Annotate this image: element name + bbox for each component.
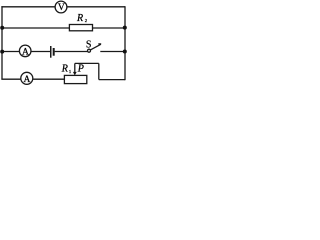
switch S blade tip tail <box>98 43 101 45</box>
svg-text:R: R <box>61 63 68 74</box>
switch S pivot circle <box>88 49 91 52</box>
wire switch to right edge <box>100 51 125 53</box>
wire R2 branch right <box>92 27 125 29</box>
svg-text:S: S <box>86 39 92 50</box>
wire bottom row: left corner to ammeter A2 <box>1 78 20 80</box>
wire slider branch bottom to right edge <box>99 79 125 81</box>
wire A1 to battery <box>31 51 50 53</box>
svg-text:V: V <box>58 3 65 13</box>
rheostat slider wire <box>75 62 99 64</box>
svg-text:A: A <box>23 75 30 85</box>
battery B1 short thick plate <box>53 48 55 56</box>
wire R2 branch left <box>2 27 69 29</box>
resistor R2 box <box>69 25 92 31</box>
wire A2 to rheostat box <box>33 78 64 80</box>
wire battery to switch <box>55 51 88 53</box>
svg-text:A: A <box>22 48 29 58</box>
junction dot right middle row <box>123 50 127 54</box>
junction dot left R2 row <box>0 26 4 30</box>
svg-text:R: R <box>76 13 83 24</box>
switch S blade <box>90 44 100 50</box>
junction dot left middle row <box>0 50 4 54</box>
ammeter A1 circle <box>19 45 31 57</box>
wire middle row: left to ammeter A1 <box>2 51 19 53</box>
svg-text:P: P <box>77 63 84 74</box>
wire top border left of voltmeter <box>1 6 55 8</box>
wire slider branch vertical <box>98 63 100 79</box>
wire top border right of voltmeter <box>67 6 125 8</box>
ammeter A2 circle <box>21 72 33 84</box>
rheostat slider arrowhead <box>73 72 77 76</box>
junction dot right R2 row <box>123 26 127 30</box>
battery B1 long plate <box>50 46 52 58</box>
rheostat R1 box <box>64 75 86 83</box>
rheostat slider stem <box>74 63 76 72</box>
voltmeter V1 circle <box>55 1 67 13</box>
wire left vertical <box>1 6 3 79</box>
wire right vertical <box>124 6 126 80</box>
